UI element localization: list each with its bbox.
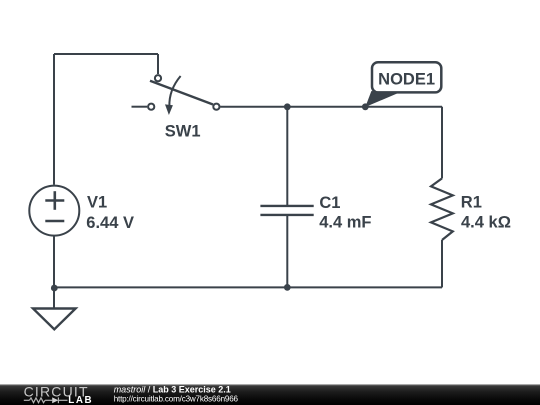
svg-text:C1: C1: [319, 194, 340, 212]
svg-text:LAB: LAB: [68, 395, 93, 405]
svg-text:6.44 V: 6.44 V: [86, 214, 134, 232]
svg-text:V1: V1: [87, 194, 107, 212]
svg-text:mastroil / Lab 3 Exercise 2.1: mastroil / Lab 3 Exercise 2.1: [114, 385, 231, 395]
svg-text:4.4 kΩ: 4.4 kΩ: [461, 214, 511, 232]
svg-text:4.4 mF: 4.4 mF: [319, 214, 371, 232]
svg-text:SW1: SW1: [165, 122, 201, 140]
svg-text:NODE1: NODE1: [378, 71, 435, 89]
svg-text:R1: R1: [461, 194, 482, 212]
svg-text:http://circuitlab.com/c3w7k8s6: http://circuitlab.com/c3w7k8s66n966: [114, 395, 239, 404]
